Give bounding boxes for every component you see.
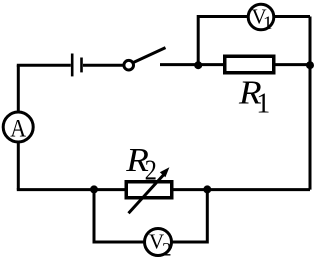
svg-text:1: 1 [256,89,270,120]
svg-text:2: 2 [162,239,172,259]
svg-text:2: 2 [145,155,157,186]
svg-text:1: 1 [263,13,273,34]
svg-text:A: A [10,115,26,143]
